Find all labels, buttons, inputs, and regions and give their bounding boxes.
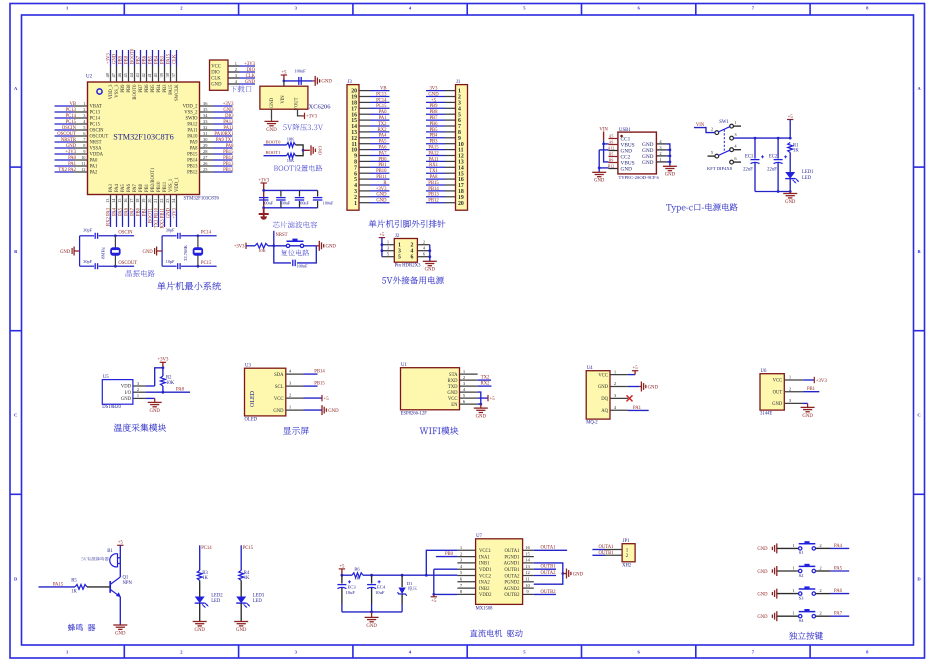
svg-text:OSCIN: OSCIN bbox=[62, 126, 77, 131]
pin 7 bbox=[354, 165, 370, 171]
svg-text:PB8: PB8 bbox=[124, 55, 129, 64]
wire bbox=[634, 371, 636, 375]
svg-text:OUTB2: OUTB2 bbox=[540, 590, 556, 595]
junction bbox=[789, 137, 792, 140]
node PC13 bbox=[55, 108, 77, 113]
pin 5 bbox=[382, 252, 401, 261]
svg-text:S4: S4 bbox=[799, 618, 805, 623]
svg-text:PA0: PA0 bbox=[379, 110, 388, 115]
ground bbox=[193, 622, 207, 633]
svg-text:PB8: PB8 bbox=[429, 110, 438, 115]
wire bbox=[830, 615, 849, 617]
svg-text:PB11: PB11 bbox=[376, 175, 387, 180]
pin 1 VCC bbox=[211, 61, 239, 70]
svg-text:32: 32 bbox=[203, 125, 207, 130]
ground bbox=[801, 403, 815, 418]
svg-text:PC15: PC15 bbox=[376, 104, 387, 109]
caption 下载口 bbox=[230, 86, 251, 93]
wire bbox=[146, 385, 155, 387]
svg-text:VSS_3: VSS_3 bbox=[115, 84, 120, 98]
svg-text:EC1: EC1 bbox=[745, 155, 754, 160]
svg-text:VCC1: VCC1 bbox=[479, 549, 492, 554]
pin 3 INB1 bbox=[457, 558, 490, 567]
svg-text:OLED: OLED bbox=[245, 417, 258, 422]
wire bbox=[816, 547, 831, 549]
svg-text:I/O: I/O bbox=[125, 391, 132, 396]
caption 芯片滤波电容 bbox=[273, 221, 317, 228]
svg-text:GND: GND bbox=[428, 92, 439, 97]
node OSCIN bbox=[55, 126, 77, 131]
pin 2 GND bbox=[598, 381, 628, 390]
wire bbox=[264, 155, 287, 157]
pin 4 bbox=[411, 246, 430, 255]
node TX3 PB10 bbox=[154, 207, 159, 228]
svg-text:VB: VB bbox=[69, 102, 76, 107]
power +5 bbox=[339, 564, 345, 569]
svg-text:LED2: LED2 bbox=[211, 594, 223, 599]
svg-text:10K: 10K bbox=[258, 248, 266, 253]
svg-text:10K: 10K bbox=[166, 381, 175, 386]
svg-text:OUT: OUT bbox=[773, 390, 783, 395]
pin 1 VCC1 bbox=[457, 545, 491, 554]
ground (rotated) bbox=[311, 145, 323, 155]
svg-text:VDDA: VDDA bbox=[90, 153, 104, 158]
pin 15 bbox=[445, 171, 464, 177]
wire bbox=[604, 143, 609, 145]
node PA5 bbox=[816, 566, 850, 571]
pin 2 INA1 bbox=[457, 551, 490, 560]
display U3 OLED bbox=[245, 368, 286, 416]
pin 41 PB5 bbox=[147, 66, 156, 93]
wire bbox=[733, 149, 741, 151]
svg-text:BOOT1: BOOT1 bbox=[266, 150, 282, 155]
svg-text:PA9 TX1: PA9 TX1 bbox=[216, 138, 234, 143]
pin 2 PC13 bbox=[74, 107, 101, 116]
pin 4 AQ bbox=[601, 405, 628, 414]
svg-text:PB4: PB4 bbox=[157, 84, 162, 93]
ground bbox=[316, 241, 336, 251]
pin 6 bbox=[354, 171, 370, 177]
node PB0 bbox=[370, 157, 390, 162]
svg-text:B5: B5 bbox=[609, 153, 614, 157]
node RX2 PA3 bbox=[106, 207, 111, 227]
node PA11 bbox=[214, 126, 235, 131]
svg-text:PA5: PA5 bbox=[118, 207, 123, 216]
junction bbox=[777, 137, 780, 140]
pin 16 bbox=[445, 177, 464, 183]
caption 蜂鸣器 bbox=[68, 624, 95, 631]
node PA6 bbox=[124, 207, 129, 227]
buzzer B1 bbox=[107, 549, 120, 567]
svg-text:PB13: PB13 bbox=[223, 162, 234, 167]
svg-text:C: C bbox=[14, 413, 17, 418]
svg-text:EC2: EC2 bbox=[769, 155, 778, 160]
svg-text:GND: GND bbox=[245, 80, 256, 85]
wire bbox=[803, 391, 819, 393]
node PB15 bbox=[304, 382, 326, 387]
svg-text:A12: A12 bbox=[608, 147, 615, 151]
svg-text:SDA: SDA bbox=[274, 373, 284, 378]
svg-text:PA0: PA0 bbox=[68, 156, 77, 161]
svg-text:VCC: VCC bbox=[598, 373, 608, 378]
ground bbox=[60, 247, 80, 256]
wire bbox=[754, 138, 756, 158]
svg-text:+5: +5 bbox=[431, 98, 437, 103]
ground bbox=[592, 172, 606, 183]
svg-text:VCC: VCC bbox=[274, 397, 284, 402]
pin 2 DIO bbox=[211, 67, 239, 76]
junction bbox=[479, 403, 482, 406]
svg-text:VCC: VCC bbox=[448, 397, 458, 402]
node PA7 bbox=[130, 207, 135, 227]
svg-text:GND: GND bbox=[223, 108, 234, 113]
wire bbox=[264, 207, 318, 209]
wire bbox=[429, 245, 431, 262]
junction bbox=[302, 149, 305, 152]
svg-text:1: 1 bbox=[83, 101, 85, 106]
caption 5V外接备用电源 bbox=[382, 276, 444, 284]
svg-text:GND: GND bbox=[621, 166, 633, 172]
node PB0 bbox=[436, 552, 458, 557]
ground bbox=[663, 166, 677, 177]
pin 5 OSCIN bbox=[74, 125, 105, 134]
pin 15 bbox=[351, 118, 370, 124]
switch levers bbox=[718, 126, 730, 132]
svg-text:1K: 1K bbox=[354, 576, 360, 581]
pin 20 PB2/BOOT1 bbox=[147, 167, 156, 211]
power +3V3 bbox=[814, 377, 827, 384]
wire bbox=[199, 545, 201, 570]
node PB14 bbox=[426, 187, 445, 192]
svg-text:10uF: 10uF bbox=[346, 590, 356, 595]
svg-text:U5: U5 bbox=[103, 375, 109, 380]
pin 8 VDD2 bbox=[457, 589, 492, 598]
svg-text:+5: +5 bbox=[490, 397, 496, 402]
svg-text:PA7: PA7 bbox=[379, 151, 388, 156]
svg-text:RX2: RX2 bbox=[481, 382, 491, 387]
svg-text:GND: GND bbox=[665, 173, 676, 178]
svg-text:U4: U4 bbox=[587, 366, 593, 371]
power +5 bbox=[431, 594, 437, 604]
node PB3 bbox=[426, 140, 445, 145]
svg-text:VB: VB bbox=[380, 87, 387, 92]
wire bbox=[246, 245, 255, 247]
svg-text:PC13: PC13 bbox=[90, 111, 101, 116]
svg-text:12: 12 bbox=[81, 167, 85, 172]
junction bbox=[262, 206, 265, 209]
svg-text:PA8: PA8 bbox=[176, 388, 185, 393]
svg-text:GND: GND bbox=[772, 402, 783, 407]
resistor R3 1K bbox=[197, 570, 208, 581]
transistor Q1 NPN bbox=[110, 576, 132, 598]
pin 1 bbox=[382, 240, 401, 249]
svg-text:R6: R6 bbox=[354, 567, 360, 572]
ground bbox=[313, 76, 333, 86]
node PA7 bbox=[370, 151, 390, 156]
pin GND right 2 bbox=[642, 151, 667, 160]
svg-text:+3V3: +3V3 bbox=[234, 245, 245, 250]
svg-text:+3V3: +3V3 bbox=[172, 207, 177, 218]
node PA0 bbox=[55, 156, 77, 161]
node PA4 bbox=[112, 207, 117, 227]
svg-text:+5: +5 bbox=[281, 70, 287, 75]
node PB14 bbox=[214, 156, 235, 161]
node PB7 bbox=[426, 116, 445, 121]
svg-text:OUTB1: OUTB1 bbox=[540, 565, 556, 570]
svg-text:PB4: PB4 bbox=[154, 55, 159, 64]
pin 4 bbox=[445, 106, 461, 112]
svg-text:VCC: VCC bbox=[211, 65, 221, 70]
svg-text:PB12: PB12 bbox=[428, 199, 439, 204]
svg-text:1K: 1K bbox=[793, 149, 799, 154]
ground bbox=[639, 382, 658, 392]
svg-text:+3V3: +3V3 bbox=[65, 150, 76, 155]
wire bbox=[592, 549, 605, 551]
svg-text:PB13: PB13 bbox=[428, 193, 439, 198]
svg-text:BOOT1: BOOT1 bbox=[148, 207, 153, 223]
node TX2 bbox=[478, 376, 491, 381]
wire bbox=[199, 603, 201, 621]
node PA4 bbox=[370, 134, 390, 139]
node PB1 bbox=[370, 163, 390, 168]
pin 16 bbox=[351, 112, 370, 118]
node GND bbox=[370, 199, 390, 204]
node OUTB2 bbox=[534, 590, 556, 595]
svg-text:VBAT: VBAT bbox=[90, 105, 102, 110]
wire bbox=[478, 392, 481, 404]
connector JP1 XH2 bbox=[622, 544, 635, 562]
sensor U6 3144E hall bbox=[760, 374, 784, 410]
svg-text:PA15: PA15 bbox=[428, 146, 439, 151]
svg-text:3144E: 3144E bbox=[760, 411, 772, 416]
node BOOT1 bbox=[264, 150, 287, 156]
svg-text:6: 6 bbox=[411, 255, 414, 261]
svg-text:+3V3: +3V3 bbox=[244, 62, 255, 67]
svg-text:PB5: PB5 bbox=[429, 128, 438, 133]
svg-text:+5: +5 bbox=[324, 397, 330, 402]
node PA11 bbox=[426, 157, 445, 162]
pin 3 CLK bbox=[211, 73, 239, 82]
pin GND right 3 bbox=[642, 145, 667, 154]
node +3V3 bbox=[106, 50, 111, 66]
pin 5 VCC2 bbox=[457, 570, 491, 579]
svg-text:2: 2 bbox=[235, 67, 237, 72]
node +5 bbox=[426, 98, 445, 103]
svg-text:OSCOUT: OSCOUT bbox=[57, 132, 76, 137]
sensor U5 DS18B20 bbox=[102, 380, 133, 405]
junction bbox=[381, 249, 384, 252]
junction bbox=[262, 189, 265, 192]
svg-text:VCC2: VCC2 bbox=[479, 574, 492, 579]
wire bbox=[599, 167, 608, 169]
svg-text:U3: U3 bbox=[245, 364, 251, 369]
svg-text:TX2 PA2: TX2 PA2 bbox=[58, 168, 76, 173]
pin 1 STA bbox=[449, 369, 478, 378]
node PA1 bbox=[370, 116, 390, 121]
svg-text:R5: R5 bbox=[71, 579, 77, 584]
switch S4 button bbox=[757, 611, 776, 621]
power +5 bbox=[787, 115, 793, 120]
svg-text:+5: +5 bbox=[118, 541, 124, 546]
svg-text:PA15: PA15 bbox=[166, 53, 171, 64]
wire bbox=[303, 149, 310, 151]
svg-text:PA5: PA5 bbox=[834, 566, 843, 571]
caption 显示屏 bbox=[283, 427, 309, 435]
pin SW1-1 bbox=[730, 120, 737, 128]
svg-text:PB0: PB0 bbox=[378, 157, 387, 162]
svg-text:C: C bbox=[917, 413, 920, 418]
wire bbox=[161, 236, 163, 266]
wire bbox=[79, 236, 81, 266]
svg-text:PA5: PA5 bbox=[121, 183, 126, 192]
svg-text:100nF: 100nF bbox=[323, 201, 334, 206]
resistor R1 1K bbox=[788, 143, 800, 154]
junction bbox=[283, 80, 286, 83]
node PC15 bbox=[370, 104, 390, 109]
LED LED3 bbox=[236, 580, 265, 608]
pin 24 VDD_1 bbox=[171, 177, 180, 211]
wire bbox=[667, 149, 670, 151]
node PB4 bbox=[154, 50, 159, 66]
pin 16 PA6 bbox=[123, 183, 132, 210]
capacitor 10pF bottom bbox=[166, 259, 180, 269]
svg-text:PB9: PB9 bbox=[429, 104, 438, 109]
sensor U4 MQ-2 bbox=[586, 371, 610, 419]
pin 20 bbox=[351, 89, 370, 95]
svg-text:+3V3: +3V3 bbox=[258, 178, 270, 183]
svg-text:U6: U6 bbox=[761, 369, 767, 374]
svg-text:RX1: RX1 bbox=[429, 163, 439, 168]
pin 10 AGND2 bbox=[504, 583, 534, 592]
svg-text:PB7: PB7 bbox=[136, 55, 141, 64]
pin 36 VDD_2 bbox=[183, 101, 214, 110]
wire bbox=[371, 588, 373, 604]
svg-text:22uF: 22uF bbox=[767, 168, 777, 173]
pin A5 CC1 bbox=[609, 135, 631, 143]
pin 5 bbox=[445, 112, 461, 118]
caption 独立按键 bbox=[789, 632, 823, 640]
svg-text:PB12: PB12 bbox=[187, 171, 198, 176]
svg-text:12: 12 bbox=[525, 570, 530, 575]
svg-text:TX2: TX2 bbox=[378, 122, 387, 127]
power +5 bbox=[379, 233, 385, 238]
pin 30 PA9 bbox=[190, 137, 214, 146]
svg-text:DIO: DIO bbox=[211, 71, 220, 76]
svg-text:PA5: PA5 bbox=[379, 140, 388, 145]
svg-text:INA1: INA1 bbox=[479, 555, 490, 560]
svg-text:XC6206: XC6206 bbox=[309, 103, 332, 110]
node PC15 bbox=[55, 120, 77, 125]
pin 25 PB12 bbox=[187, 167, 213, 176]
wire bbox=[816, 615, 831, 617]
node GND bbox=[112, 50, 117, 66]
ground bbox=[234, 622, 248, 633]
node R bbox=[370, 181, 390, 186]
pin 31 PA10 bbox=[187, 131, 213, 140]
svg-text:PB4: PB4 bbox=[429, 134, 438, 139]
wire bbox=[273, 231, 275, 246]
power +5 bbox=[488, 395, 495, 402]
wire bbox=[534, 575, 556, 577]
svg-text:GND: GND bbox=[366, 624, 377, 629]
svg-text:PC14: PC14 bbox=[376, 98, 387, 103]
svg-text:RX2: RX2 bbox=[378, 128, 388, 133]
node +3V3 bbox=[370, 187, 390, 192]
pin SW1-2 bbox=[711, 126, 719, 134]
resistor R5 1K bbox=[71, 579, 87, 595]
wire bbox=[296, 145, 304, 156]
pin 4 PC15 bbox=[74, 119, 101, 128]
node PC14 bbox=[370, 98, 390, 103]
svg-text:R3: R3 bbox=[202, 571, 208, 576]
wire bbox=[694, 128, 715, 133]
wire bbox=[534, 593, 556, 595]
svg-text:OUTA2: OUTA2 bbox=[505, 574, 521, 579]
junction bbox=[272, 244, 275, 247]
wire bbox=[830, 570, 849, 572]
svg-text:EN: EN bbox=[451, 403, 458, 408]
wire bbox=[803, 379, 814, 381]
node VB bbox=[55, 102, 77, 107]
node PB12 bbox=[214, 168, 235, 173]
svg-text:10: 10 bbox=[525, 583, 530, 588]
pin 19 bbox=[445, 195, 464, 201]
node BOOT1 bbox=[148, 207, 153, 227]
svg-text:PA9: PA9 bbox=[190, 141, 199, 146]
svg-text:1: 1 bbox=[387, 240, 389, 245]
node OUTA2 bbox=[534, 571, 556, 576]
svg-text:SCL: SCL bbox=[275, 385, 284, 390]
node PB5 bbox=[148, 50, 153, 66]
svg-text:2: 2 bbox=[711, 126, 713, 131]
node VB bbox=[370, 87, 390, 92]
pin 12 bbox=[445, 154, 464, 160]
svg-text:PB13: PB13 bbox=[187, 165, 198, 170]
svg-text:AGND1: AGND1 bbox=[504, 562, 521, 567]
svg-text:R4: R4 bbox=[244, 571, 250, 576]
svg-text:+3V3: +3V3 bbox=[306, 115, 318, 120]
pin A9 VBUS bbox=[609, 141, 635, 149]
pin 2 bbox=[354, 195, 370, 201]
pin 44 BOOT0 bbox=[129, 66, 138, 100]
pin 9 bbox=[445, 136, 461, 142]
svg-text:GND: GND bbox=[598, 385, 609, 390]
driver U7 MX1508 bbox=[476, 539, 523, 605]
svg-text:11: 11 bbox=[525, 577, 530, 582]
svg-text:PA4: PA4 bbox=[379, 134, 388, 139]
svg-text:PC15: PC15 bbox=[90, 123, 101, 128]
svg-text:42: 42 bbox=[141, 73, 146, 77]
svg-text:1K: 1K bbox=[244, 576, 250, 581]
svg-text:STM32F103C8T6: STM32F103C8T6 bbox=[113, 133, 174, 142]
node OUTB1 bbox=[592, 551, 614, 556]
ground arrow bbox=[259, 208, 269, 220]
wire bbox=[777, 615, 799, 617]
svg-text:30pF: 30pF bbox=[166, 228, 175, 233]
LED LED1 bbox=[785, 153, 814, 192]
pin 4 GND bbox=[447, 387, 477, 396]
pin 45 PB8 bbox=[123, 66, 132, 93]
wire bbox=[789, 120, 791, 139]
node PB4 bbox=[426, 134, 445, 139]
node PB3 bbox=[160, 50, 165, 66]
node PA1 bbox=[55, 162, 77, 167]
svg-text:PB1: PB1 bbox=[142, 207, 147, 216]
svg-text:GND: GND bbox=[266, 128, 277, 133]
svg-text:PA1: PA1 bbox=[379, 116, 388, 121]
wire bbox=[777, 593, 799, 595]
wire bbox=[297, 246, 316, 263]
